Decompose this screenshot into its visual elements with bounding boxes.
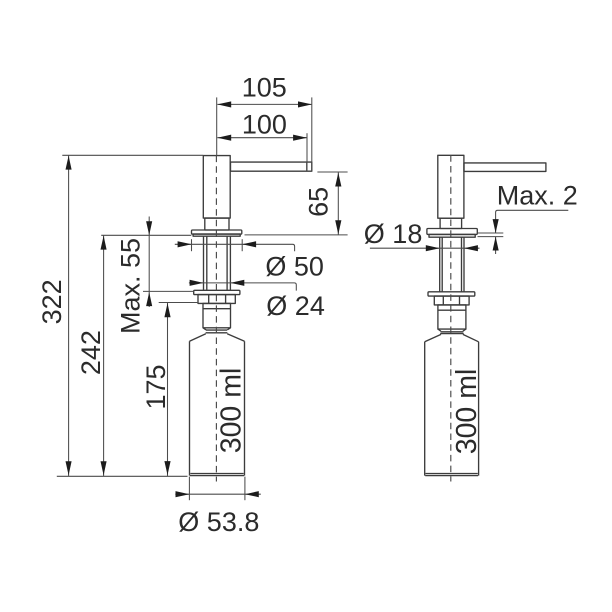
svg-text:105: 105 — [242, 72, 287, 102]
flange — [192, 230, 242, 236]
shaft right — [440, 237, 464, 292]
svg-text:322: 322 — [37, 279, 67, 324]
centerline right — [450, 155, 452, 481]
dim Ø 53.8 — [175, 477, 260, 537]
nut right — [434, 296, 469, 305]
dim 105 — [217, 72, 312, 107]
head — [203, 156, 230, 219]
centerline left — [215, 156, 217, 482]
svg-text:Max. 55: Max. 55 — [116, 238, 146, 334]
neck — [205, 218, 229, 230]
spout right — [464, 163, 546, 172]
spout — [231, 162, 312, 171]
svg-text:65: 65 — [304, 187, 334, 217]
extension lines top — [217, 97, 312, 171]
dim Ø 50 — [175, 239, 324, 281]
neck right — [440, 218, 462, 228]
shaft — [204, 236, 231, 290]
flange2 right — [428, 292, 475, 296]
nut — [198, 295, 235, 304]
svg-text:100: 100 — [242, 109, 287, 139]
pump chamber — [203, 303, 231, 330]
ground baseline — [57, 475, 188, 477]
bottle body — [190, 341, 245, 475]
neck rings right — [440, 332, 464, 334]
dim Ø 18 — [364, 219, 480, 251]
dim Max. 2 — [478, 181, 578, 255]
pump chamber right — [438, 305, 466, 331]
svg-text:242: 242 — [76, 330, 106, 375]
dim 322 — [37, 155, 203, 476]
dim Max. 55 — [116, 217, 194, 335]
label 300 ml right — [451, 369, 483, 455]
dim 242 — [76, 235, 191, 476]
bottle body right — [425, 342, 479, 476]
flange right — [427, 229, 477, 238]
dim 175 — [141, 303, 198, 477]
bottle neck rings — [206, 330, 228, 333]
bottle shoulder — [190, 334, 245, 341]
flange2 — [194, 290, 240, 294]
dim Ø 24 — [189, 280, 325, 321]
label 300 ml left — [216, 368, 248, 454]
svg-text:175: 175 — [141, 364, 171, 409]
svg-text:Ø 53.8: Ø 53.8 — [178, 507, 259, 537]
dim 100 — [217, 109, 307, 140]
head right — [438, 155, 464, 218]
svg-text:Max. 2: Max. 2 — [497, 181, 578, 211]
dim 65 — [245, 172, 348, 235]
svg-text:Ø 18: Ø 18 — [364, 219, 423, 249]
svg-text:300 ml: 300 ml — [451, 369, 483, 455]
svg-text:300 ml: 300 ml — [216, 368, 248, 454]
svg-text:Ø 24: Ø 24 — [266, 291, 325, 321]
shoulder right — [425, 334, 479, 341]
svg-text:Ø 50: Ø 50 — [265, 252, 324, 282]
